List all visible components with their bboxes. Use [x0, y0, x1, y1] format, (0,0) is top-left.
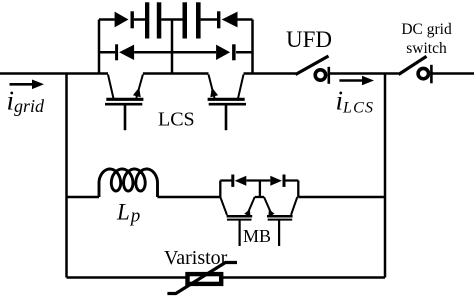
svg-text:UFD: UFD	[286, 27, 332, 52]
wire main bus to UFD	[244, 72, 297, 75]
inductor Lp	[99, 169, 158, 197]
svg-text:DC grid: DC grid	[401, 21, 452, 38]
wire UFD to DC grid switch	[330, 72, 399, 75]
svg-text:switch: switch	[406, 40, 447, 57]
wire MB left stub	[219, 181, 221, 198]
wire MB inner segment	[255, 196, 264, 198]
wire main bus left segment	[0, 72, 108, 75]
svg-text:Lp: Lp	[116, 200, 140, 227]
wire MB diode row	[220, 179, 298, 181]
wire left riser	[98, 20, 101, 74]
IGBT Q4 MB right	[264, 197, 297, 246]
wire top snubber branch	[99, 18, 253, 21]
wire left vertical branch	[65, 74, 68, 278]
wire right vertical branch	[384, 74, 387, 278]
IGBT Q3 MB left	[220, 197, 254, 246]
MB diode row wires	[220, 181, 298, 198]
IGBT Q2 LCS right	[208, 75, 246, 131]
diode D1 top-left (pointing right)	[115, 11, 134, 28]
wire mid diode branch	[99, 51, 253, 54]
wire DC switch to right edge	[433, 72, 474, 75]
svg-text:LCS: LCS	[158, 109, 195, 131]
svg-text:igrid: igrid	[7, 86, 46, 117]
arrow i_LCS	[339, 76, 374, 86]
arrow i_grid	[10, 80, 45, 90]
diode D6 MB right (pointing right)	[270, 175, 285, 187]
varistor RV1	[167, 263, 237, 294]
IGBT Q1 LCS left	[105, 75, 143, 131]
wire middle branch	[67, 196, 386, 199]
wire center tap	[171, 20, 174, 74]
capacitor C2	[183, 2, 201, 38]
wire MB right stub	[297, 181, 299, 198]
wire LCS inner top segment	[143, 72, 209, 75]
svg-text:Varistor: Varistor	[164, 247, 228, 269]
diode D4 mid-right (pointing right)	[216, 44, 236, 60]
diode D5 MB left (pointing left)	[231, 175, 246, 187]
diode D2 top-right (pointing left)	[217, 11, 238, 28]
capacitor C1	[145, 2, 161, 38]
svg-text:iLCS: iLCS	[336, 86, 375, 117]
DC grid switch	[399, 56, 432, 83]
wire MB center stub	[259, 181, 261, 198]
wire bottom return	[67, 276, 386, 279]
wire right riser	[251, 20, 254, 74]
svg-text:MB: MB	[243, 226, 271, 246]
diode D3 mid-left (pointing left)	[115, 44, 134, 60]
UFD switch	[296, 56, 329, 84]
